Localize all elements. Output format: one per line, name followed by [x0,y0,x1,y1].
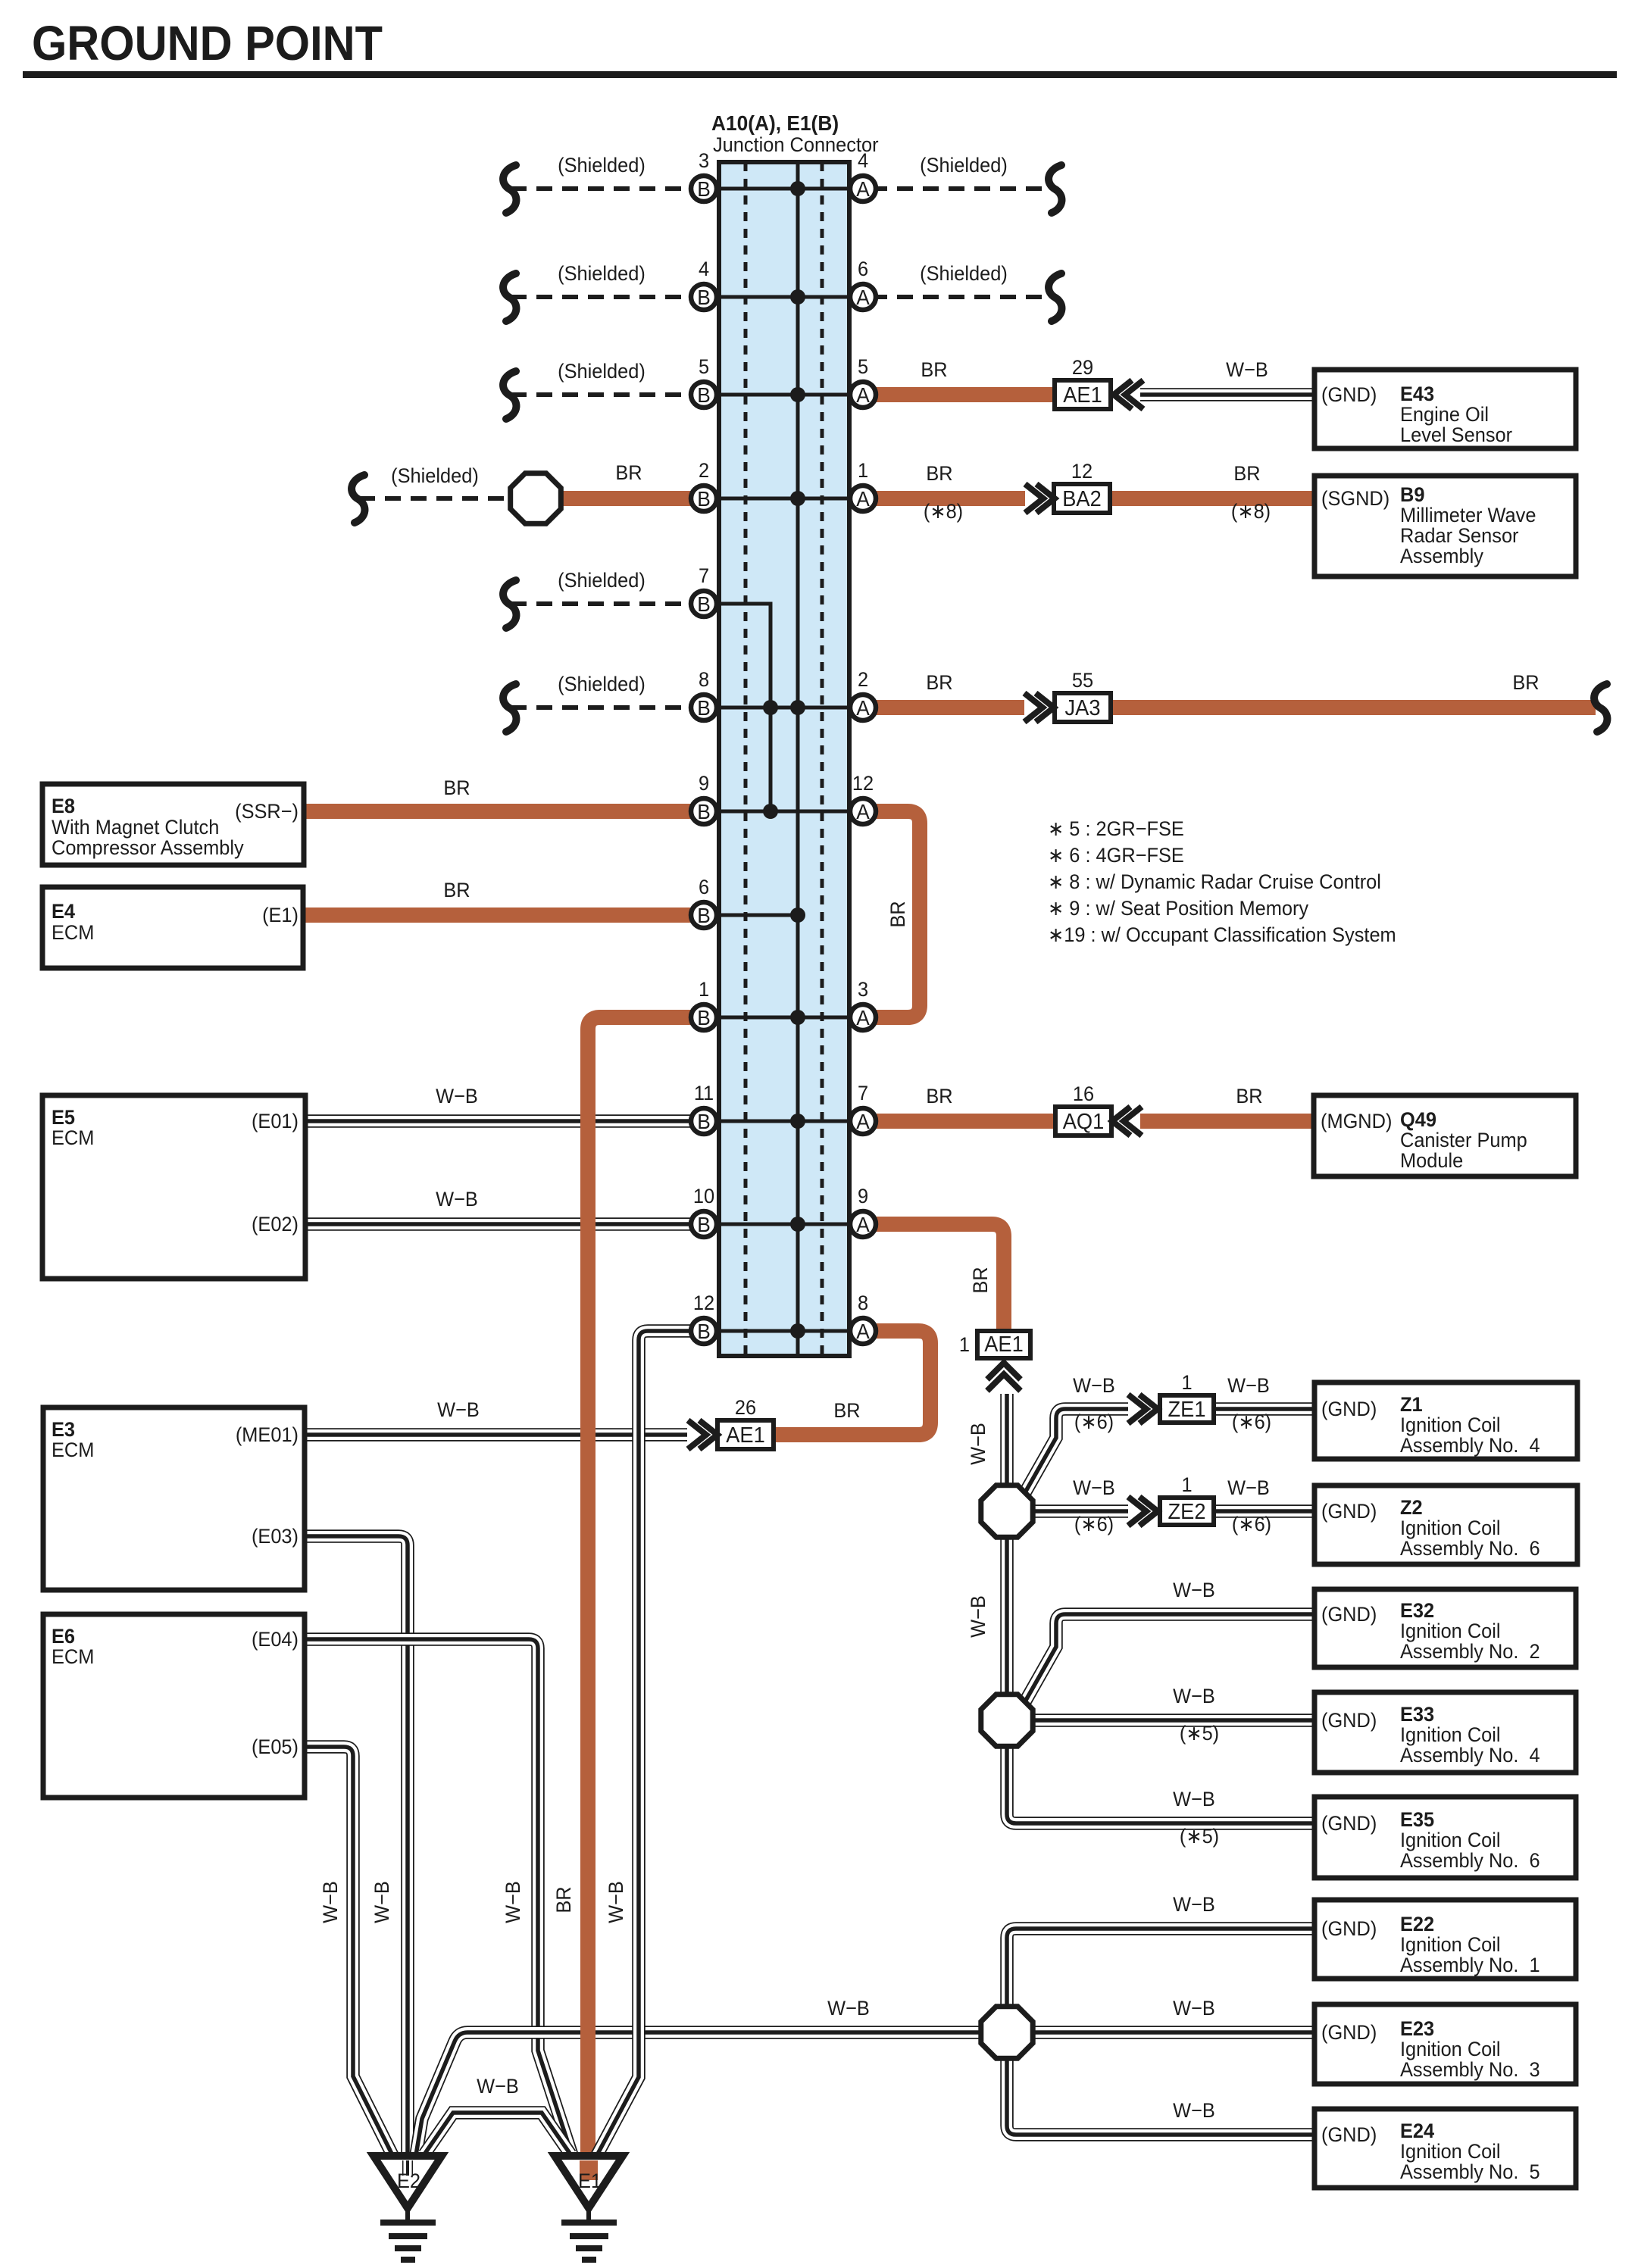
svg-text:A: A [856,1212,870,1236]
pin 6B circle [691,875,717,928]
component E24 Ignition Coil Assembly No.5 [1314,2109,1576,2188]
svg-text:B: B [697,695,711,720]
svg-text:BR: BR [926,670,952,694]
svg-text:Level Sensor: Level Sensor [1400,423,1512,446]
wire W-B hub2 to E32 [1024,1614,1314,1703]
chevron double-arrow right at AE1(26) [688,1420,717,1449]
svg-text:(∗6): (∗6) [1232,1410,1271,1433]
junction connector internal dashed bus line right [821,162,824,1356]
svg-text:JA3: JA3 [1065,695,1101,720]
svg-text:ZE1: ZE1 [1168,1397,1206,1421]
svg-text:9: 9 [858,1184,868,1207]
junction internal row wire at pin row r3 [704,393,863,397]
component E6 ECM [43,1614,305,1798]
connector ZE1 pin 1 [1160,1370,1214,1423]
junction internal row wire at pin row r6 [704,706,863,710]
junction internal row wire at pin row r9 [704,1016,863,1020]
junction solder dot 1 [790,181,805,196]
svg-text:(E02): (E02) [252,1212,299,1236]
svg-text:A: A [856,383,870,407]
wire W-B hub1 down to hub2 [1000,1539,1014,1693]
wire BR 1A to chevron BA2 [871,491,1025,506]
shield octagon at row 2B [511,473,561,524]
wire W-B hub3 left down to ground E2 [416,2032,979,2155]
svg-text:7: 7 [699,564,709,587]
pin 9B circle [691,771,717,824]
svg-text:Assembly No. 4: Assembly No. 4 [1400,1433,1540,1457]
svg-text:1: 1 [858,458,868,482]
svg-text:BR: BR [552,1886,575,1913]
svg-text:(Shielded): (Shielded) [391,464,479,487]
pin 6A circle [850,257,876,310]
svg-text:A: A [856,486,870,511]
svg-text:Assembly No. 3: Assembly No. 3 [1400,2057,1540,2081]
break curl left row1 [503,165,516,213]
connector AQ1 pin 16 [1055,1082,1111,1136]
svg-text:B: B [697,1109,711,1133]
svg-text:Assembly No. 2: Assembly No. 2 [1400,1639,1540,1663]
wire W-B hub3 to E23 [1035,2026,1314,2039]
pin 1A circle [850,458,876,511]
chevron double-arrow right at ZE2 [1128,1497,1158,1526]
chevron double-arrow up at AE1(1) [987,1363,1021,1391]
junction solder dot 10 [790,1114,805,1129]
wire W-B ZE2 to Z2 [1214,1504,1314,1518]
svg-text:7: 7 [858,1081,868,1104]
svg-text:B: B [697,1005,711,1029]
ground E2 wire stub [402,2160,413,2176]
svg-text:(Shielded): (Shielded) [920,153,1008,177]
wire W-B hub1 to ZE2 [1035,1504,1128,1518]
svg-text:∗ 9 : w/ Seat Position Memory: ∗ 9 : w/ Seat Position Memory [1048,896,1309,920]
svg-text:(GND): (GND) [1321,1708,1377,1732]
svg-text:(Shielded): (Shielded) [558,261,646,285]
svg-text:W−B: W−B [1227,1476,1270,1499]
pin 2A circle [850,667,876,720]
svg-text:1: 1 [1181,1370,1192,1394]
wire W-B hub3 down and to E24 [1007,2060,1314,2135]
junction connector A10(A),E1(B) body [719,162,849,1356]
svg-text:Assembly No. 6: Assembly No. 6 [1400,1536,1540,1560]
svg-text:Assembly No. 5: Assembly No. 5 [1400,2160,1540,2183]
svg-text:Assembly No. 6: Assembly No. 6 [1400,1848,1540,1872]
svg-text:AE1: AE1 [1063,383,1102,407]
svg-text:(GND): (GND) [1321,1811,1377,1835]
svg-text:(GND): (GND) [1321,1499,1377,1523]
junction internal row wire at pin row r12 [704,1329,863,1333]
wire BR shield-octagon to 2B [561,491,704,506]
svg-text:B: B [697,903,711,927]
junction internal row wire at pin row r11 [704,1223,863,1226]
svg-text:(E01): (E01) [252,1109,299,1132]
pin 8A circle [850,1291,876,1344]
svg-text:ECM: ECM [52,920,94,944]
wire shielded dashed at 5B [511,392,704,397]
svg-text:26: 26 [735,1395,756,1419]
junction connector internal solid bus line [796,162,800,1356]
junction solder dot 5 [790,700,805,715]
chevron double-arrow right at JA3 [1024,693,1054,722]
svg-text:W−B: W−B [1173,1684,1215,1707]
svg-text:B: B [697,799,711,823]
pin 7A circle [850,1081,876,1134]
svg-text:(GND): (GND) [1321,1397,1377,1420]
wire shielded dashed at 8B [511,705,704,710]
wire W-B hub1 to ZE1 [1024,1409,1128,1494]
svg-text:W−B: W−B [1173,1578,1215,1601]
svg-text:Assembly: Assembly [1400,544,1484,567]
svg-text:(∗8): (∗8) [924,499,963,523]
wire shielded dashed to shield octagon [359,496,512,501]
svg-text:55: 55 [1072,668,1093,692]
wire W-B 12B down to ground E1 [597,1331,704,2155]
junction internal row wire from 6B to bus [704,914,798,917]
break curl right row2 [1049,273,1061,321]
wire BR 9A down to AE1(1) [871,1224,1004,1331]
component E8 With Magnet Clutch Compressor Assembly [42,784,304,865]
svg-text:W−B: W−B [1173,1787,1215,1810]
ground E1 stem [586,2208,591,2221]
junction solder dot 8 [790,908,805,923]
component E22 Ignition Coil Assembly No.1 [1314,1900,1576,1979]
wire W-B E5 E02 to 10B [305,1217,704,1231]
break curl left row3 [503,371,516,419]
wire W-B E5 E01 to 11B [305,1114,704,1128]
wire W-B AE1(29) to E43 [1140,388,1314,401]
splice hub octagon 1 [981,1485,1033,1537]
svg-text:6: 6 [858,257,868,280]
svg-text:29: 29 [1072,355,1093,379]
wire BR 12A down to 3A [871,811,920,1017]
svg-text:B: B [697,285,711,309]
svg-text:ECM: ECM [52,1645,94,1668]
break curl right JA3 BR [1594,684,1607,732]
svg-text:∗ 8 : w/ Dynamic Radar Cruise: ∗ 8 : w/ Dynamic Radar Cruise Control [1048,870,1381,893]
wire W-B E3 E03 down to ground E2 [305,1536,408,2173]
junction internal wire from 7B down to row 9B [704,604,771,811]
component E23 Ignition Coil Assembly No.3 [1314,2004,1576,2084]
wire W-B hub2 down and to E35 [1007,1748,1314,1823]
svg-text:(∗6): (∗6) [1074,1410,1114,1433]
pin 12B circle [691,1291,717,1344]
junction solder dot 12 [790,1323,805,1339]
junction solder dot 2 [790,289,805,305]
wire shielded dashed at 4A [871,186,1053,191]
connector JA3 pin 55 [1055,668,1111,722]
svg-text:Module: Module [1400,1148,1463,1172]
svg-text:(GND): (GND) [1321,1602,1377,1626]
break curl left row4 [352,475,364,523]
svg-text:(∗6): (∗6) [1232,1512,1271,1535]
junction solder dot 6 [763,700,778,715]
wire BR E4 E1 to 6B [305,908,704,923]
svg-text:9: 9 [699,771,709,795]
svg-text:W−B: W−B [437,1398,480,1421]
svg-text:(∗5): (∗5) [1180,1824,1219,1848]
svg-text:3: 3 [858,977,868,1001]
svg-text:4: 4 [699,257,709,280]
svg-text:B: B [697,1212,711,1236]
svg-text:BR: BR [921,358,947,381]
svg-text:W−B: W−B [1227,1373,1270,1397]
svg-text:BR: BR [926,1084,952,1107]
svg-text:6: 6 [699,875,709,898]
svg-text:W−B: W−B [1073,1373,1115,1397]
pin 4A circle [850,148,876,201]
splice hub octagon 3 [981,2007,1033,2058]
svg-text:E1: E1 [578,2169,602,2192]
svg-text:AE1: AE1 [726,1423,765,1447]
svg-text:BR: BR [443,878,470,901]
component E43 Engine Oil Level Sensor [1314,370,1576,448]
wire W-B ground E2 to ground E1 link [424,2113,570,2154]
connector AE1 pin 26 [717,1395,774,1449]
svg-text:(SGND): (SGND) [1321,486,1389,510]
wire BR 2A to chevron JA3 [871,700,1024,715]
svg-text:(GND): (GND) [1321,1917,1377,1940]
connector BA2 pin 12 [1054,459,1110,513]
ground E1 wire stub [580,2160,598,2180]
svg-text:1: 1 [959,1332,970,1356]
svg-text:1: 1 [699,977,709,1001]
svg-text:W−B: W−B [477,2074,519,2098]
wire W-B E3 ME01 to AE1(26) [305,1428,687,1442]
svg-text:W−B: W−B [966,1595,989,1638]
svg-text:E2: E2 [397,2169,420,2192]
svg-text:(E04): (E04) [252,1627,299,1651]
chevron double-arrow right at ZE1 [1128,1395,1158,1423]
pin 9A circle [850,1184,876,1237]
pin 4B circle [691,257,717,310]
component E33 Ignition Coil Assembly No.4 [1314,1692,1576,1773]
svg-text:12: 12 [852,771,874,795]
svg-text:(ME01): (ME01) [236,1423,299,1446]
svg-text:B: B [697,486,711,511]
svg-text:5: 5 [699,355,709,378]
svg-text:(E03): (E03) [252,1524,299,1548]
svg-text:(GND): (GND) [1321,2123,1377,2146]
svg-text:BR: BR [1512,670,1539,694]
svg-text:BR: BR [926,461,952,485]
svg-text:A10(A), E1(B): A10(A), E1(B) [711,111,839,135]
pin 5B circle [691,355,717,408]
ground E2 stem [405,2208,410,2221]
junction solder dot 3 [790,387,805,402]
wire BR 7A to AQ1(16) [871,1114,1055,1129]
junction solder dot 7 [763,804,778,819]
svg-text:A: A [856,1005,870,1029]
svg-text:(MGND): (MGND) [1321,1109,1392,1132]
svg-text:BR: BR [1233,461,1260,485]
svg-text:AQ1: AQ1 [1063,1109,1105,1133]
svg-text:3: 3 [699,148,709,172]
junction internal row wire at pin row r2 [704,295,863,299]
svg-text:W−B: W−B [966,1423,989,1465]
svg-text:BR: BR [615,461,642,484]
svg-text:5: 5 [858,355,868,378]
wire BR JA3 to break [1111,700,1596,715]
svg-text:W−B: W−B [1073,1476,1115,1499]
svg-text:Junction Connector: Junction Connector [713,133,879,156]
wire W-B AE1(1) chevron to hub octagon 1 [1000,1394,1014,1485]
svg-text:ZE2: ZE2 [1168,1499,1206,1523]
svg-text:12: 12 [1071,459,1093,483]
component E32 Ignition Coil Assembly No.2 [1314,1589,1576,1667]
svg-text:1: 1 [1181,1473,1192,1496]
pin 7B circle [691,564,717,617]
svg-text:AE1: AE1 [984,1332,1024,1356]
svg-text:16: 16 [1073,1082,1094,1105]
svg-text:BA2: BA2 [1062,486,1102,511]
connector ZE2 pin 1 [1160,1473,1214,1525]
splice hub octagon 2 [981,1695,1033,1746]
svg-text:Assembly No. 4: Assembly No. 4 [1400,1743,1540,1767]
junction solder dot 9 [790,1010,805,1025]
title underline [23,71,1617,78]
svg-text:11: 11 [694,1081,714,1104]
svg-text:Compressor Assembly: Compressor Assembly [52,836,245,859]
svg-text:W−B: W−B [501,1881,524,1923]
wire W-B hub3 up and to E22 [1007,1929,1314,2005]
svg-text:(Shielded): (Shielded) [558,568,646,592]
svg-text:2: 2 [699,458,709,482]
svg-text:B: B [697,383,711,407]
svg-text:BR: BR [1236,1084,1262,1107]
pin 2B circle [691,458,717,511]
ground E2 triangle [374,2156,442,2208]
junction solder dot 11 [790,1217,805,1232]
wire W-B E6 E04 down to ground E1 [305,1639,572,2155]
svg-text:ECM: ECM [52,1438,94,1461]
svg-text:GROUND POINT: GROUND POINT [32,16,383,70]
svg-text:A: A [856,285,870,309]
svg-text:W−B: W−B [1173,2098,1215,2122]
svg-text:BR: BR [968,1267,992,1293]
svg-text:12: 12 [693,1291,714,1314]
component E4 ECM [42,887,303,968]
junction internal row wire at pin row r7 [704,810,863,814]
svg-text:W−B: W−B [1173,1892,1215,1916]
svg-text:W−B: W−B [1173,1996,1215,2020]
svg-text:W−B: W−B [370,1881,393,1923]
svg-text:A: A [856,799,870,823]
wire BR AQ1 to Q49 [1140,1114,1314,1129]
junction internal row wire at pin row r1 [704,187,863,191]
svg-text:Assembly No. 1: Assembly No. 1 [1400,1953,1540,1976]
svg-text:A: A [856,695,870,720]
pin 12A circle [850,771,876,824]
wire shielded dashed at 6A [871,295,1053,299]
svg-text:(∗6): (∗6) [1074,1512,1114,1535]
svg-text:(∗8): (∗8) [1231,499,1271,523]
svg-text:(Shielded): (Shielded) [920,261,1008,285]
svg-text:(Shielded): (Shielded) [558,153,646,177]
svg-text:W−B: W−B [827,1996,870,2020]
pin 3A circle [850,977,876,1030]
connector AE1 pin 1 [959,1331,1030,1358]
wire shielded dashed at 7B [511,601,704,606]
svg-text:W−B: W−B [436,1187,478,1211]
break curl left row6 [503,684,516,732]
component B9 Millimeter Wave Radar Sensor Assembly [1314,476,1576,576]
pin 10B circle [691,1184,717,1237]
component Z1 Ignition Coil Assembly No.4 [1314,1382,1577,1459]
svg-text:B: B [697,1319,711,1343]
svg-text:W−B: W−B [1226,358,1268,381]
svg-text:BR: BR [886,901,909,927]
break curl left row2 [503,273,516,321]
svg-text:(∗5): (∗5) [1180,1721,1219,1745]
svg-text:∗19 : w/ Occupant Classificati: ∗19 : w/ Occupant Classification System [1048,923,1396,946]
component E5 ECM [42,1095,305,1279]
svg-text:BR: BR [443,776,470,799]
ground E2 bars [380,2223,436,2260]
svg-text:(GND): (GND) [1321,383,1377,406]
wire BR 8A down to AE1(26) [773,1331,930,1435]
svg-text:A: A [856,1319,870,1343]
ground E1 triangle [555,2156,623,2208]
svg-text:BR: BR [833,1398,860,1422]
svg-text:A: A [856,1109,870,1133]
component E3 ECM [43,1407,305,1590]
svg-text:8: 8 [699,667,709,691]
component E35 Ignition Coil Assembly No.6 [1314,1797,1576,1878]
svg-text:A: A [856,177,870,201]
chevron double-arrow left at AE1(29) [1114,380,1143,409]
wire shielded dashed at 4B [511,295,704,299]
svg-text:(Shielded): (Shielded) [558,359,646,383]
svg-text:B: B [697,592,711,616]
svg-text:(GND): (GND) [1321,2020,1377,2044]
svg-text:2: 2 [858,667,868,691]
pin 8B circle [691,667,717,720]
chevron double-arrow left at AQ1 [1112,1107,1142,1136]
svg-text:ECM: ECM [52,1126,94,1149]
component Z2 Ignition Coil Assembly No.6 [1314,1485,1577,1564]
wire W-B hub2 to E33 [1035,1713,1314,1727]
svg-text:W−B: W−B [604,1881,627,1923]
junction internal row wire at pin row r4 [704,497,863,501]
junction internal row wire at pin row r10 [704,1120,863,1123]
svg-text:(E1): (E1) [262,903,299,926]
wire BR 1B down to ground E1 [588,1017,704,2176]
pin 5A circle [850,355,876,408]
ground E1 bars [561,2223,617,2260]
wire shielded dashed at 3B [511,186,704,191]
wire BR E8 SSR- to 9B [305,804,704,819]
svg-text:10: 10 [693,1184,714,1207]
pin 11B circle [691,1081,717,1134]
svg-text:(E05): (E05) [252,1735,299,1758]
wire W-B ZE1 to Z1 [1214,1402,1314,1416]
break curl right row1 [1049,165,1061,213]
wire BR 5A to AE1(29) [871,387,1055,402]
junction connector internal dashed bus line left [744,162,748,1356]
svg-text:W−B: W−B [318,1881,342,1923]
svg-text:(SSR−): (SSR−) [235,799,299,823]
pin 3B circle [691,148,717,201]
wire W-B E6 E05 down to ground E2 [305,1747,392,2155]
chevron double-arrow right at BA2 [1025,484,1055,513]
svg-text:B: B [697,177,711,201]
svg-text:∗ 6 : 4GR−FSE: ∗ 6 : 4GR−FSE [1048,843,1184,867]
svg-text:8: 8 [858,1291,868,1314]
svg-text:E8: E8 [52,794,75,817]
pin 1B circle [691,977,717,1030]
component Q49 Canister Pump Module [1314,1095,1576,1176]
junction solder dot 4 [790,491,805,506]
connector AE1 pin 29 [1055,355,1111,409]
